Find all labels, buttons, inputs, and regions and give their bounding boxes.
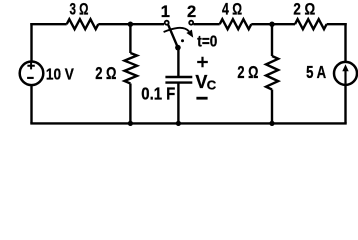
wire R3 to top-right corner: [327, 23, 347, 25]
svg-text:2 Ω: 2 Ω: [293, 1, 315, 19]
svg-text:4 Ω: 4 Ω: [222, 1, 242, 19]
junction dot bottom capacitor branch: [176, 121, 181, 126]
capacitor C1 top plate: [165, 76, 192, 78]
node 2 terminal circle: [189, 21, 193, 25]
resistor R1 3 ohm: [67, 19, 99, 29]
svg-text:1: 1: [161, 3, 170, 21]
junction dot bottom branch A: [128, 121, 133, 126]
svg-text:3 Ω: 3 Ω: [70, 1, 89, 19]
switch arc: [164, 28, 189, 32]
voltage source minus sign: [27, 77, 34, 79]
wire branch A upper: [129, 24, 131, 53]
wire left rail lower: [30, 85, 32, 124]
svg-text:2: 2: [187, 3, 196, 21]
svg-text:t=0: t=0: [197, 34, 217, 51]
svg-text:2 Ω: 2 Ω: [237, 62, 258, 82]
svg-text:0.1 F: 0.1 F: [141, 83, 175, 103]
wire branch C upper: [271, 24, 273, 56]
wire node 2 to R2: [194, 23, 220, 25]
switch blade: [168, 25, 178, 48]
junction dot top branch C: [269, 22, 274, 27]
wire top-left lead: [30, 23, 66, 25]
switch arc arrowhead: [186, 30, 193, 38]
resistor R5 2 ohm vertical right: [266, 56, 278, 90]
wire switch pivot to capacitor: [177, 48, 179, 78]
current source arrowhead: [342, 64, 348, 71]
current source I1 circle: [334, 62, 357, 85]
svg-text:V: V: [195, 72, 207, 92]
junction dot top branch A: [128, 22, 133, 27]
svg-text:C: C: [207, 77, 217, 92]
wire R2 to junction C: [251, 23, 295, 25]
node 1 terminal circle: [165, 21, 169, 25]
voltage source plus sign: [27, 62, 34, 69]
wire left rail upper: [30, 23, 32, 62]
resistor R3 2 ohm top: [295, 19, 327, 29]
wire branch A lower: [129, 84, 131, 124]
junction dot bottom branch C: [269, 121, 274, 126]
capacitor plus polarity mark: [197, 57, 208, 68]
resistor R4 2 ohm vertical left: [125, 53, 138, 84]
junction dot switch pivot: [175, 45, 181, 51]
wire bottom rail: [30, 122, 346, 124]
svg-text:10 V: 10 V: [46, 67, 74, 84]
current source arrow shaft: [344, 70, 346, 84]
resistor R2 4 ohm: [220, 19, 252, 29]
switch arc dot: [181, 39, 184, 42]
capacitor minus polarity mark: [196, 97, 207, 100]
wire branch C lower: [271, 90, 273, 124]
wire capacitor to bottom rail: [177, 83, 179, 124]
svg-text:2 Ω: 2 Ω: [95, 63, 116, 83]
wire right rail upper: [344, 23, 346, 62]
capacitor C1 bottom plate: [165, 81, 192, 83]
wire right rail lower: [344, 85, 346, 124]
svg-text:5 A: 5 A: [306, 62, 326, 82]
voltage source V1 circle: [20, 62, 44, 86]
wire R1 to node 1: [98, 23, 164, 25]
